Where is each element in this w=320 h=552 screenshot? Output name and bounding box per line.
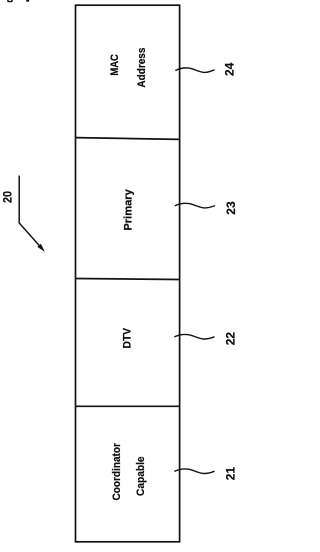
svg-text:22: 22	[224, 332, 238, 346]
svg-text:MAC: MAC	[109, 54, 121, 76]
top-edge text fragment 2 (cut-off glyph bottom)	[26, 0, 29, 2]
arrowhead of 20 leader	[37, 244, 45, 252]
svg-text:21: 21	[224, 467, 238, 481]
svg-text:DTV: DTV	[122, 327, 134, 348]
divider DTV / Coordinator Capable	[76, 405, 180, 407]
squiggle leader to 22	[174, 334, 214, 339]
field table outer box	[76, 5, 180, 542]
svg-text:Capable: Capable	[135, 456, 147, 496]
leader line for 20 (vertical segment then diagonal)	[19, 176, 42, 249]
cell text: Coordinator Capable (field 21)	[111, 442, 147, 500]
svg-text:20: 20	[3, 191, 15, 203]
svg-text:23: 23	[224, 201, 238, 215]
squiggle leader to 21	[174, 469, 214, 474]
cell text: MAC Address (field 24)	[109, 48, 148, 88]
squiggle leader to 24	[175, 68, 214, 73]
divider Primary / DTV	[76, 279, 180, 280]
svg-text:24: 24	[223, 62, 237, 76]
svg-text:Address: Address	[136, 48, 148, 88]
divider MAC Address / Primary	[76, 138, 180, 140]
squiggle leader to 23	[175, 203, 215, 208]
svg-text:Coordinator: Coordinator	[111, 442, 123, 500]
svg-text:Primary: Primary	[123, 188, 135, 230]
top-edge text fragment 1 (cut-off glyph bottom)	[7, 0, 13, 2]
